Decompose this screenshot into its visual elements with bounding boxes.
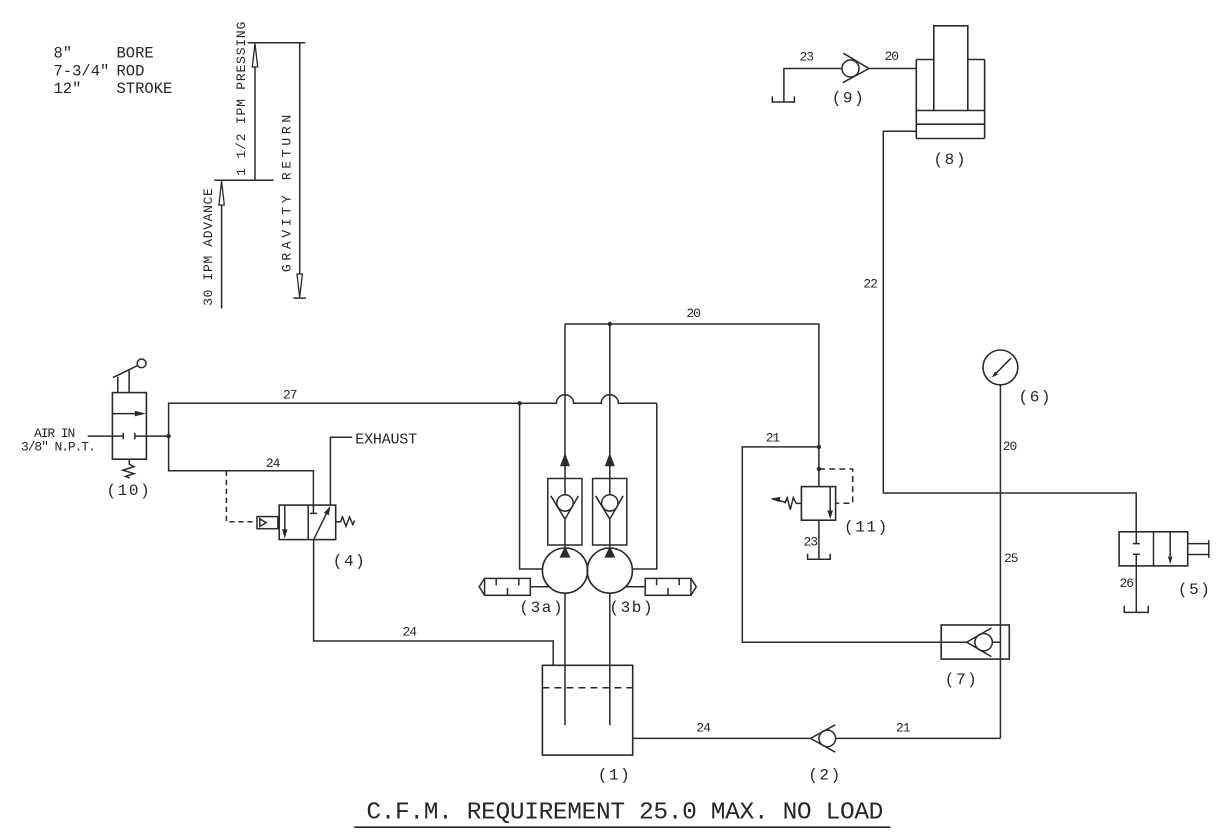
- check valve C7 seat: [967, 628, 992, 657]
- check valve C9 seat: [843, 53, 869, 82]
- node: junction wire27 / pump enclosure: [517, 401, 521, 405]
- gauge G6 circle: [983, 350, 1018, 385]
- valve V4 pilot triangle: [260, 519, 266, 527]
- stroke-speed annotation: top reference tick: [248, 42, 306, 44]
- svg-text:24: 24: [403, 625, 418, 640]
- svg-text:(3a): (3a): [519, 599, 564, 617]
- svg-text:(5): (5): [1178, 581, 1212, 599]
- gauge G6 needle: [995, 358, 1012, 375]
- muffler right connect: [626, 586, 646, 588]
- node: junction P3b at wire 20: [608, 322, 612, 326]
- svg-text:26: 26: [1120, 576, 1134, 591]
- pump P3a circle: [542, 548, 587, 593]
- wire 24 tank outlet: [633, 737, 811, 739]
- svg-text:24: 24: [696, 720, 711, 735]
- relief valve R11 adjustment arrow: [773, 499, 787, 502]
- wire 21 check valve C2 to corner: [836, 737, 1001, 739]
- muffler right point: [691, 578, 696, 595]
- muffler right ticks: [657, 578, 680, 595]
- check valve C7 outlet line: [992, 641, 1000, 643]
- relief valve R11 internal flow line + arrow: [829, 487, 831, 511]
- tank T1 fluid level (dashed): [542, 687, 632, 689]
- cylinder C8 body: [916, 60, 984, 139]
- svg-text:20: 20: [885, 49, 899, 64]
- svg-text:STROKE: STROKE: [117, 80, 173, 98]
- svg-text:(4): (4): [333, 553, 367, 571]
- pump P3a discharge wire: [564, 324, 566, 547]
- node: junction at V10 outlet: [166, 434, 170, 438]
- check valve box above P3a: [548, 479, 582, 546]
- valve V4 pilot box: [257, 517, 278, 529]
- valve V10 body: [112, 393, 146, 460]
- svg-text:12": 12": [54, 80, 82, 98]
- valve V4 left-cell down arrow: [284, 505, 286, 529]
- valve V4 body: [279, 505, 336, 539]
- wire 25 gauge to bottom corner: [999, 385, 1001, 739]
- stroke-speed annotation: pressing arrowhead: [252, 44, 257, 68]
- check valve C9 drain symbol: [772, 96, 794, 102]
- pump P3b circle: [587, 548, 632, 593]
- svg-text:22: 22: [863, 277, 877, 292]
- muffler left body: [485, 578, 531, 595]
- wire 23 to check valve C9: [784, 69, 842, 103]
- check valve C2 circle: [819, 730, 836, 747]
- svg-text:25: 25: [1004, 551, 1018, 566]
- muffler left point: [479, 578, 484, 595]
- drain symbol below R11: [808, 554, 831, 560]
- svg-text:(2): (2): [808, 767, 842, 785]
- wire 24 from junction to valve V4: [169, 436, 314, 505]
- wire AIR IN to valve V10: [88, 435, 113, 437]
- svg-text:(11): (11): [844, 519, 889, 537]
- pump suction tube 3a: [564, 593, 566, 725]
- flow triangle above box P3b: [605, 453, 615, 466]
- svg-text:23: 23: [804, 534, 818, 549]
- svg-text:21: 21: [896, 720, 911, 735]
- check valve circle P3a: [557, 495, 573, 511]
- valve V4 return spring: [336, 517, 355, 527]
- wire 27 to pumps (with crossover hops): [169, 395, 657, 436]
- svg-text:20: 20: [686, 306, 700, 321]
- check valve C7 inlet line: [941, 641, 967, 643]
- svg-text:(10): (10): [106, 482, 151, 500]
- svg-text:30 IPM ADVANCE: 30 IPM ADVANCE: [201, 188, 216, 306]
- check valve C2 seat: [811, 725, 836, 752]
- svg-text:3/8" N.P.T.: 3/8" N.P.T.: [21, 440, 95, 455]
- valve V10 lever actuator: [113, 366, 137, 393]
- valve V10 return spring: [123, 459, 134, 478]
- svg-text:21: 21: [766, 431, 781, 446]
- stroke-speed annotation: advance arrowhead: [219, 181, 224, 205]
- relief valve R11 spring: [785, 498, 802, 510]
- relief valve R11 pilot line (dashed): [819, 469, 853, 503]
- svg-text:27: 27: [283, 388, 297, 403]
- muffler right body: [645, 578, 691, 595]
- wire 26 below V5: [1135, 566, 1137, 613]
- pump air-supply enclosure left: [520, 403, 543, 569]
- check valve seat P3a: [551, 496, 579, 519]
- stroke-speed annotation: pressing arrow shaft: [254, 67, 256, 180]
- wire 22 cylinder to valve V5: [883, 131, 1136, 532]
- svg-text:(6): (6): [1019, 388, 1053, 406]
- svg-text:1 1/2 IPM PRESSING: 1 1/2 IPM PRESSING: [234, 21, 249, 176]
- svg-text:(1): (1): [598, 767, 632, 785]
- svg-text:7-3/4": 7-3/4": [54, 62, 110, 80]
- valve V5 body: [1119, 532, 1188, 566]
- wire EXHAUST from valve V4: [330, 437, 352, 505]
- check valve circle P3b: [602, 495, 618, 511]
- flow triangle above box P3a: [560, 453, 570, 466]
- node: junction wire21 branch: [817, 445, 821, 449]
- muffler left ticks: [496, 578, 519, 595]
- title underline: [354, 826, 890, 828]
- cylinder C8 rod: [934, 26, 968, 111]
- valve V10 lever knob: [137, 359, 146, 368]
- valve V4 diagonal flow path: [314, 513, 327, 539]
- svg-text:ROD: ROD: [117, 62, 145, 80]
- svg-text:20: 20: [1003, 439, 1017, 454]
- wire 21 from branch to check valve C7: [742, 447, 941, 642]
- valve V10 blocked port symbols: [112, 433, 146, 440]
- drain symbol below V5: [1124, 606, 1148, 613]
- pilot line (dashed) to valve V4: [226, 471, 256, 522]
- check valve C9 circle: [842, 60, 859, 77]
- svg-text:(7): (7): [945, 671, 979, 689]
- svg-text:EXHAUST: EXHAUST: [355, 432, 417, 449]
- svg-text:8": 8": [54, 45, 73, 63]
- wire 24 from valve V4 to tank: [314, 540, 554, 666]
- wire V10 outlet: [146, 435, 168, 437]
- valve V10 flow arrow: [112, 413, 136, 415]
- stroke-speed annotation: bottom tick: [293, 297, 306, 299]
- node: junction pilot branch: [817, 467, 821, 471]
- wire 23 below R11: [818, 520, 820, 559]
- valve V4 blocked port: [310, 505, 317, 513]
- pump P3a outlet triangle: [560, 546, 571, 557]
- pump air-supply enclosure right: [632, 403, 656, 569]
- wire 20 pump header: [565, 324, 819, 487]
- spec text block: bore/rod/stroke: [54, 45, 173, 99]
- check valve seat P3b: [596, 496, 624, 519]
- valve V5 blocked ports: [1133, 532, 1140, 566]
- pump P3b discharge wire: [609, 324, 611, 547]
- pump suction tube 3b: [609, 593, 611, 725]
- svg-text:(9): (9): [832, 90, 866, 108]
- stroke-speed annotation: mid reference tick: [214, 179, 273, 181]
- svg-text:GRAVITY RETURN: GRAVITY RETURN: [279, 111, 294, 272]
- svg-text:C.F.M. REQUIREMENT 25.0 MAX. N: C.F.M. REQUIREMENT 25.0 MAX. NO LOAD: [366, 800, 883, 827]
- stroke-speed annotation: advance arrow shaft: [221, 205, 223, 308]
- svg-text:23: 23: [800, 49, 814, 64]
- svg-text:(8): (8): [933, 151, 967, 169]
- valve V5 flow path with arrow: [1169, 532, 1171, 556]
- svg-text:BORE: BORE: [117, 45, 154, 63]
- check valve C7 circle: [975, 634, 992, 651]
- relief valve R11 body: [801, 487, 835, 521]
- stroke-speed annotation: gravity return arrowhead: [297, 274, 302, 297]
- valve V5 plunger actuator: [1188, 540, 1209, 558]
- check valve C7 box: [941, 625, 1009, 659]
- pump P3b outlet triangle: [604, 546, 615, 557]
- check valve box above P3b: [593, 479, 627, 546]
- svg-text:24: 24: [266, 456, 281, 471]
- tank T1: [542, 665, 632, 755]
- wire 20 check valve C9 to cylinder: [869, 68, 916, 70]
- muffler left connect: [530, 586, 549, 588]
- stroke-speed annotation: gravity return shaft: [299, 43, 301, 274]
- svg-text:(3b): (3b): [609, 599, 654, 617]
